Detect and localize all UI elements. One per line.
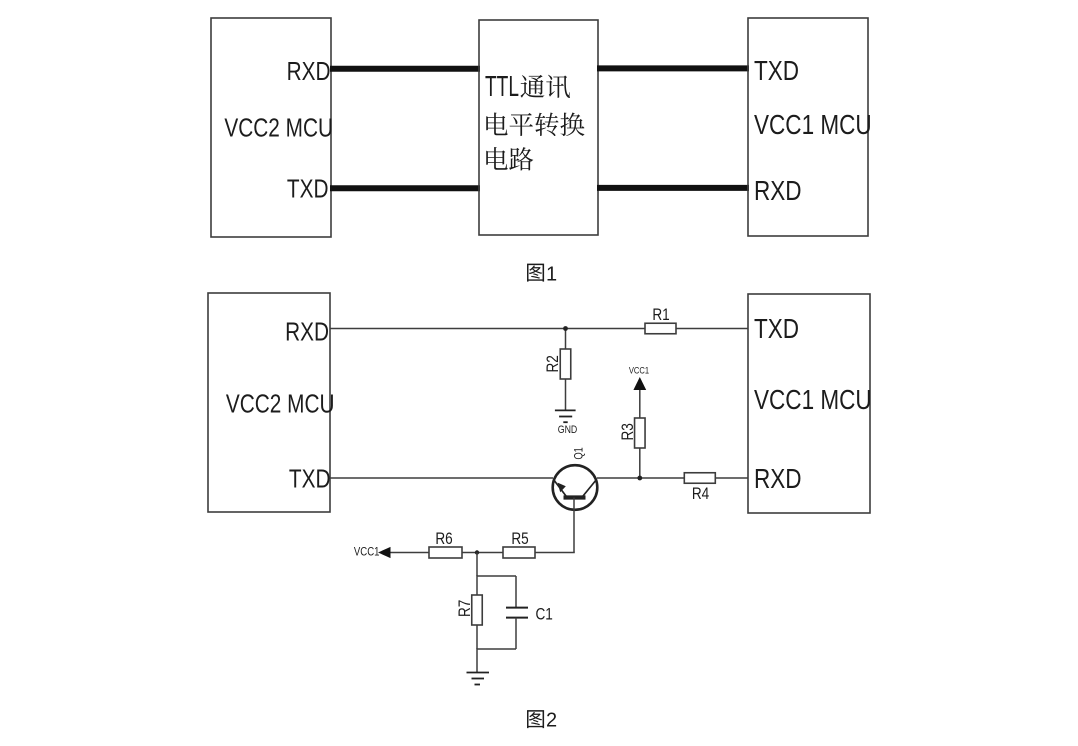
ground (earth) symbol: [467, 673, 490, 685]
wire bottom row (VCC1 to Q1 base): [391, 552, 575, 554]
wire TXD to TTL converter (thick): [330, 185, 480, 191]
power VCC1 (bottom, left arrow): [354, 546, 391, 559]
power VCC1 (top of R3): [629, 365, 649, 390]
wire RXD(VCC2) to TXD(VCC1) top net: [330, 328, 748, 330]
block TTL level-shift circuit: [479, 20, 598, 235]
svg-text:VCC1 MCU: VCC1 MCU: [754, 385, 872, 416]
block VCC2 MCU (figure 2): [208, 293, 330, 512]
wire C1 branch top: [515, 576, 517, 607]
node junction R3 / RXD wire: [637, 476, 642, 481]
wire Q1 base down: [573, 498, 575, 553]
block VCC1 MCU (figure 1): [748, 18, 868, 236]
svg-text:VCC1: VCC1: [629, 365, 649, 376]
svg-text:VCC1 MCU: VCC1 MCU: [754, 110, 872, 141]
svg-text:RXD: RXD: [285, 317, 329, 346]
svg-text:R5: R5: [511, 530, 528, 549]
svg-text:C1: C1: [536, 605, 553, 624]
svg-text:R1: R1: [652, 306, 669, 325]
resistor R2: [560, 349, 571, 379]
caption 图1: [527, 264, 557, 286]
transistor Q1: [553, 465, 598, 510]
resistor R3: [635, 418, 646, 448]
label TTL通讯 (line 1): [485, 71, 570, 103]
wire R2 branch vertical: [565, 329, 567, 411]
resistor R5: [503, 547, 535, 558]
wire R7/C1 bottom bar: [477, 648, 516, 650]
wire R7/C1 top bar: [477, 575, 516, 577]
caption 图2: [527, 710, 557, 732]
wire converter to RXD (thick): [597, 185, 749, 191]
wire converter to TXD (thick): [597, 65, 749, 71]
svg-text:TXD: TXD: [287, 174, 329, 203]
resistor R6: [429, 547, 462, 558]
wire R7 branch vertical: [476, 575, 478, 649]
svg-text:R4: R4: [692, 485, 710, 504]
block VCC1 MCU (figure 2): [748, 294, 870, 513]
svg-text:2: 2: [546, 710, 557, 732]
svg-text:TXD: TXD: [754, 314, 799, 345]
wire C1 branch bottom: [515, 618, 517, 649]
svg-text:RXD: RXD: [754, 176, 802, 207]
wire Q1 to RXD(VCC1): [597, 477, 748, 479]
svg-text:1: 1: [546, 264, 557, 286]
wire junction down to R7/C1 pair: [476, 553, 478, 577]
resistor R7: [472, 595, 483, 625]
block VCC2 MCU (figure 1): [211, 18, 331, 237]
svg-text:R3: R3: [619, 423, 638, 440]
label 电路 (line 3): [486, 147, 533, 170]
resistor R1: [645, 323, 676, 334]
svg-text:Q1: Q1: [574, 447, 586, 459]
wire TXD(VCC2) to Q1: [330, 477, 553, 479]
resistor R4: [684, 473, 715, 484]
ground GND symbol (R2): [555, 410, 576, 422]
svg-text:GND: GND: [558, 424, 578, 436]
wire VCC1 arrow to R3 to RXD net: [639, 390, 641, 478]
wire to earth ground: [476, 648, 478, 672]
node junction R7/C1 branch: [475, 550, 479, 554]
label 电平转换 (line 2): [486, 112, 584, 136]
svg-text:R7: R7: [456, 600, 475, 617]
svg-text:R6: R6: [435, 530, 452, 549]
svg-text:TXD: TXD: [754, 56, 799, 87]
svg-text:TXD: TXD: [289, 464, 331, 493]
svg-text:TTL: TTL: [485, 71, 519, 103]
svg-text:VCC2 MCU: VCC2 MCU: [224, 113, 333, 142]
svg-text:VCC2 MCU: VCC2 MCU: [226, 389, 335, 418]
svg-text:R2: R2: [544, 355, 563, 372]
capacitor C1: [506, 608, 528, 618]
svg-text:VCC1: VCC1: [354, 546, 380, 559]
wire RXD to TTL converter (thick): [330, 66, 480, 72]
svg-text:RXD: RXD: [287, 57, 331, 86]
svg-text:RXD: RXD: [754, 464, 802, 495]
node junction top wire / R2: [563, 326, 568, 331]
